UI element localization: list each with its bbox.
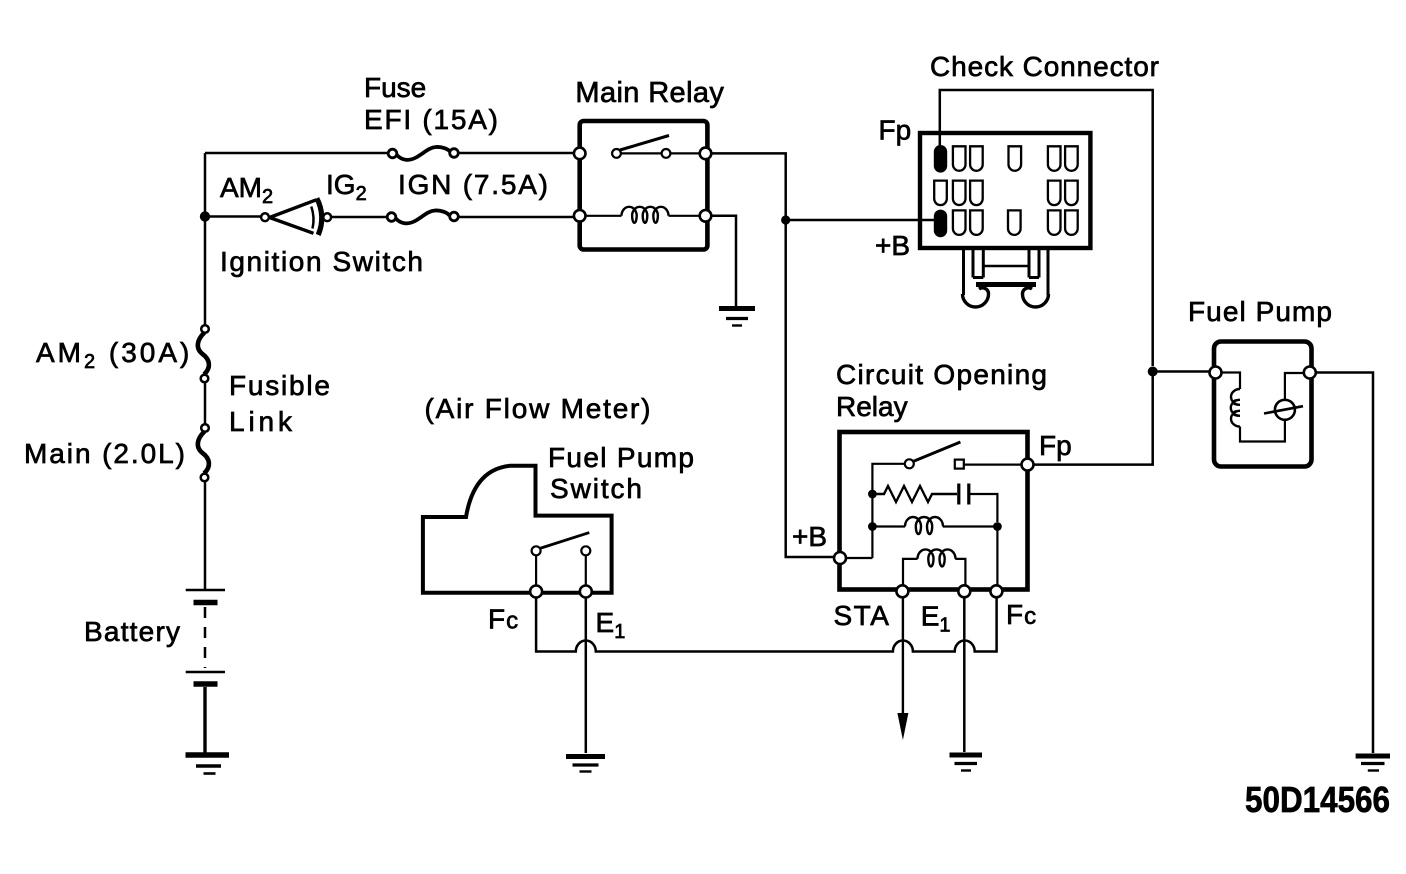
ground: COR E1 xyxy=(950,755,983,771)
wire: fusible link to battery xyxy=(204,481,207,590)
fuel pump motor coil xyxy=(1222,373,1285,442)
svg-text:Fp: Fp xyxy=(879,115,912,146)
air flow meter outline xyxy=(423,466,612,593)
capacitor (COR) xyxy=(959,484,998,523)
svg-text:Relay: Relay xyxy=(836,391,908,422)
node: junction dot at check connector branch xyxy=(781,215,790,224)
node: junction dots COR xyxy=(868,490,1002,531)
relay coil L2 (COR) xyxy=(903,549,965,585)
fuel pump motor xyxy=(1264,373,1304,420)
svg-text:Battery: Battery xyxy=(84,616,180,647)
label Fuse EFI (15A) xyxy=(364,72,498,135)
wire: AFM E1 to ground xyxy=(585,598,588,754)
label Fp (COR) xyxy=(1039,430,1072,461)
label E1 (COR) xyxy=(921,601,951,637)
wire: COR Fp to fuel pump junction xyxy=(1034,371,1153,465)
svg-text:Fp: Fp xyxy=(1039,430,1072,461)
ground: battery xyxy=(186,755,230,774)
wire: check connector Fp pin up and over to fuel pump node xyxy=(940,90,1153,366)
label Fusible Link xyxy=(229,370,330,437)
fuel pump switch contacts xyxy=(532,533,591,586)
main relay terminals xyxy=(574,148,711,222)
label IGN (7.5A) xyxy=(398,169,548,200)
svg-text:STA: STA xyxy=(834,600,891,631)
svg-text:Switch: Switch xyxy=(550,473,642,504)
label Fuel Pump xyxy=(1188,296,1332,327)
svg-text:Fuse: Fuse xyxy=(364,72,426,103)
label +B (COR) xyxy=(792,521,827,552)
label STA xyxy=(834,600,891,631)
wire: IGN fuse to main relay xyxy=(459,216,580,219)
fuel pump switch terminals xyxy=(530,586,592,598)
wire: COR E1 to ground xyxy=(963,596,966,752)
ground: fuel pump xyxy=(1356,756,1390,771)
fuel pump box xyxy=(1214,342,1312,467)
svg-text:Main Relay: Main Relay xyxy=(575,77,724,109)
circuit opening relay terminals xyxy=(834,459,1034,598)
node: junction dot AM2 branch xyxy=(200,211,210,221)
svg-text:Circuit Opening: Circuit Opening xyxy=(836,359,1047,390)
svg-text:AM2 (30A): AM2 (30A) xyxy=(36,337,192,373)
fuse IGN (7.5A) xyxy=(387,210,458,223)
svg-text:50D14566: 50D14566 xyxy=(1245,779,1390,820)
label Fc (COR) xyxy=(1006,599,1037,630)
fusible link AM2 (30A) xyxy=(198,325,209,382)
label Ignition Switch xyxy=(220,246,423,277)
node: junction dot fuel pump feed xyxy=(1148,367,1158,377)
wire: fuel pump to ground right side xyxy=(1316,373,1373,754)
wire: main relay ground leg xyxy=(711,216,736,306)
label E1 (air flow meter) xyxy=(596,607,626,643)
label Check Connector xyxy=(930,51,1159,82)
check connector lock bracket xyxy=(963,249,1049,307)
wire: main relay output right and down to +B xyxy=(711,153,834,557)
check connector pins xyxy=(934,145,1078,237)
check connector body xyxy=(920,133,1090,248)
wire: junction to ignition switch xyxy=(205,215,261,218)
fuel pump terminals xyxy=(1210,367,1316,379)
wire: between fusible links xyxy=(204,383,207,425)
label Circuit Opening Relay xyxy=(836,359,1047,422)
wire: EFI fuse to main relay xyxy=(459,152,580,155)
wire: STA down with arrow xyxy=(897,596,908,740)
label Main (2.0L) xyxy=(24,438,185,469)
label Fc (air flow meter) xyxy=(488,604,519,635)
ground: air flow meter E1 xyxy=(566,757,605,772)
label Battery xyxy=(84,616,180,647)
wire: battery to ground xyxy=(203,687,206,753)
svg-text:(Air Flow Meter): (Air Flow Meter) xyxy=(425,393,651,424)
label AM2 (30A) xyxy=(36,337,192,373)
circuit opening relay switch xyxy=(846,442,1022,558)
svg-text:EFI (15A): EFI (15A) xyxy=(364,104,498,135)
svg-text:+B: +B xyxy=(792,521,827,552)
wire: ignition switch to IGN fuse xyxy=(332,216,387,219)
circuit opening relay box xyxy=(840,432,1028,590)
svg-text:Fc: Fc xyxy=(488,604,519,635)
fusible link Main (2.0L) xyxy=(198,424,209,481)
svg-text:Fc: Fc xyxy=(1006,599,1037,630)
resistor (COR) xyxy=(872,486,957,502)
relay coil L1 (COR) xyxy=(872,517,997,534)
label (Air Flow Meter) xyxy=(425,393,651,424)
wire: AFM Fc down and long run to COR Fc with hops xyxy=(536,596,997,652)
label +B (check connector) xyxy=(875,230,910,261)
label 50D14566 xyxy=(1245,779,1390,820)
main relay box xyxy=(580,121,708,250)
main relay switch xyxy=(612,136,701,158)
ignition switch xyxy=(261,198,331,235)
svg-text:Link: Link xyxy=(229,406,293,437)
ground: main relay xyxy=(719,309,755,326)
battery xyxy=(186,590,225,684)
svg-text:Fuel Pump: Fuel Pump xyxy=(548,442,694,473)
fuse EFI (15A) xyxy=(388,147,458,160)
svg-text:Check Connector: Check Connector xyxy=(930,51,1159,82)
label Fuel Pump Switch xyxy=(548,442,694,504)
label IG2 xyxy=(326,169,367,205)
svg-text:Ignition Switch: Ignition Switch xyxy=(220,246,423,277)
label Main Relay xyxy=(575,77,724,109)
wire: junction to fuel pump xyxy=(1153,370,1210,373)
wire: left vertical battery feed xyxy=(204,153,207,325)
svg-text:IGN (7.5A): IGN (7.5A) xyxy=(398,169,548,200)
wire: junction to check connector +B pin xyxy=(786,219,936,222)
label AM2 xyxy=(220,172,273,208)
wire: COR junction to Fc terminal xyxy=(996,527,998,586)
svg-text:Fuel Pump: Fuel Pump xyxy=(1188,296,1332,327)
svg-text:+B: +B xyxy=(875,230,910,261)
label Fp (check connector) xyxy=(879,115,912,146)
wire: battery feed top horizontal to EFI fuse xyxy=(205,152,391,155)
main relay coil xyxy=(584,207,702,223)
